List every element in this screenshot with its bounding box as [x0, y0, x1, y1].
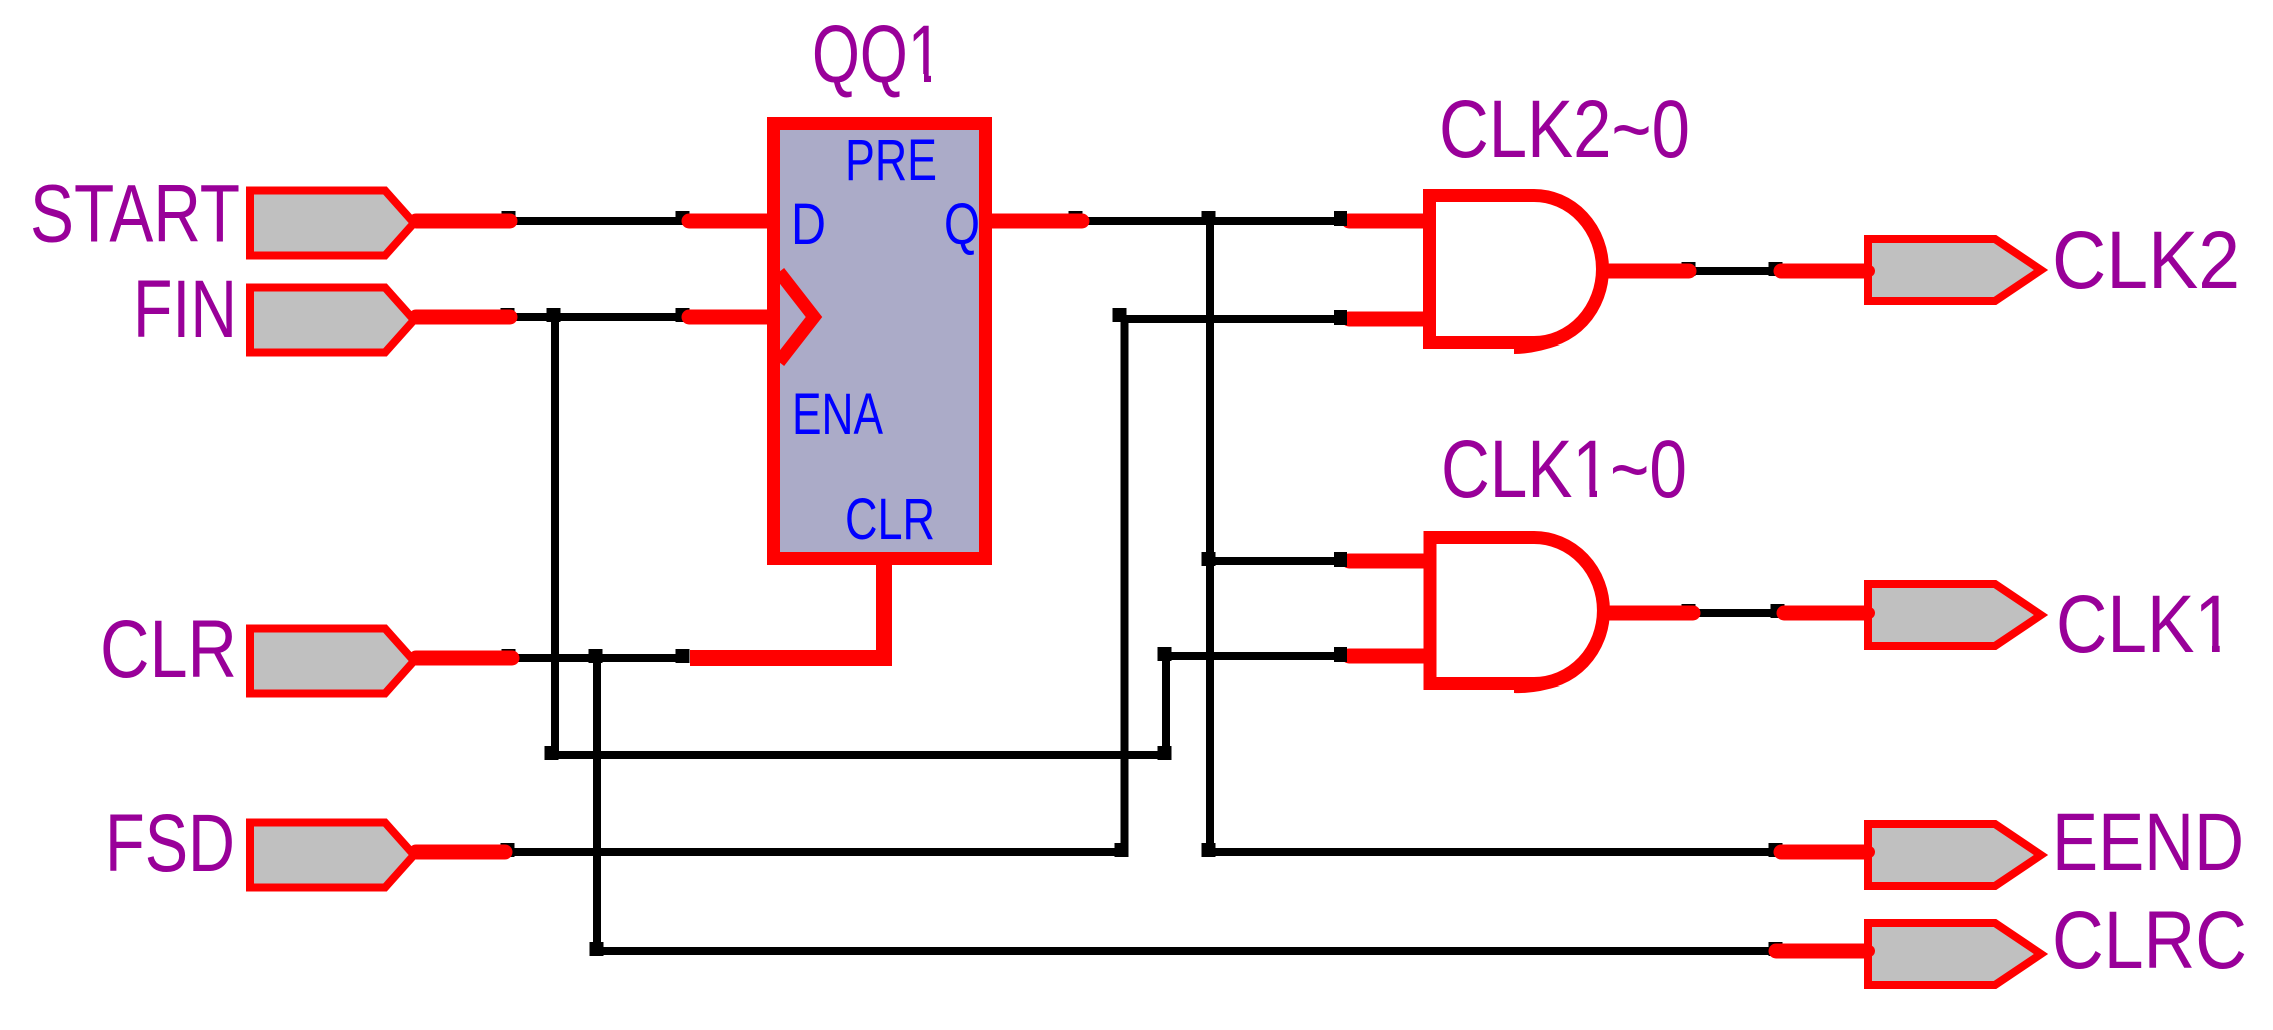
node AND2 input B corner	[1158, 647, 1172, 661]
wire EEND horizontal	[1210, 848, 1778, 856]
svg-text:START: START	[30, 169, 240, 260]
mask digit-1 foot serif (CLK1~0)	[1576, 490, 1590, 499]
svg-text:CLK1~0: CLK1~0	[1441, 424, 1687, 515]
svg-text:CLK2: CLK2	[2052, 215, 2240, 306]
wire stub Q output	[990, 214, 1082, 229]
wire stub FSD pin	[416, 845, 505, 860]
wire FSD branch to AND1 lower input	[1121, 315, 1344, 323]
wire stub AND2 input A	[1349, 554, 1430, 569]
node CLR branch T junction	[589, 649, 603, 663]
wire FSD vertical x=1124	[1121, 317, 1129, 854]
svg-text:FIN: FIN	[133, 264, 237, 355]
node START wire left end	[502, 211, 516, 225]
wire stub START pin	[416, 214, 510, 229]
wire stub CLR pin	[416, 651, 512, 666]
node AND2 output wire right end	[1771, 604, 1785, 618]
output pin EEND	[1863, 824, 2041, 886]
flip-flop QQ1 body	[774, 124, 986, 559]
mask digit-1 foot serif (QQ1)	[911, 74, 2233, 653]
wire stub EEND pin	[1781, 845, 1866, 860]
wire FIN to clock	[509, 313, 686, 321]
wire vertical C branch to AND2 upper input	[1210, 557, 1344, 565]
wire FSD horizontal	[507, 848, 1126, 856]
wire stub AND1 input A	[1349, 214, 1430, 229]
node FSD wire left end	[501, 843, 515, 857]
wire AND1 output to CLK2	[1689, 267, 1778, 275]
output pin CLK1	[1863, 584, 2041, 646]
wire FIN branch bottom horizontal	[553, 751, 1167, 759]
svg-text:FSD: FSD	[105, 798, 235, 889]
node CLR wire right end	[676, 649, 690, 663]
wire CLR horizontal	[512, 654, 686, 662]
svg-text:D: D	[791, 192, 826, 257]
node Q branch T junction	[1202, 211, 1216, 225]
junction squares	[501, 211, 1785, 956]
node FSD branch corner	[1113, 308, 1127, 322]
svg-text:CLR: CLR	[100, 604, 237, 695]
svg-text:EEND: EEND	[2052, 797, 2244, 888]
wire stub AND1 input B	[1349, 312, 1430, 327]
wire CLRC horizontal	[598, 947, 1778, 955]
output pin CLRC	[1863, 923, 2041, 985]
node FIN branch T junction	[547, 308, 561, 322]
wire START to D	[507, 219, 1780, 953]
svg-text:CLR: CLR	[845, 487, 935, 552]
wire stub AND2 input B	[1349, 649, 1430, 664]
node AND1 input B wire end	[1334, 310, 1347, 325]
wire Q branch vertical x=1210	[1206, 219, 1214, 854]
input pin FIN	[250, 288, 414, 353]
node AND2 input A T junction	[1202, 552, 1216, 566]
svg-text:QQ1: QQ1	[812, 9, 942, 100]
node FIN wire right end	[676, 308, 690, 322]
svg-text:CLK1: CLK1	[2056, 579, 2234, 670]
node AND1 output wire right end	[1769, 262, 1783, 276]
svg-text:Q: Q	[944, 192, 980, 257]
red net stubs	[416, 221, 1866, 951]
output pin CLK2	[1863, 239, 2041, 301]
node CLR wire left end	[502, 649, 516, 663]
node EEND wire right end	[1769, 843, 1783, 857]
node FIN branch bottom left corner	[545, 746, 559, 760]
wire FIN branch to AND2 lower input	[1164, 652, 1344, 660]
node AND1 input A wire end	[1334, 211, 1347, 226]
input pin CLR	[250, 629, 414, 694]
wire CLR red L into flip-flop CLR	[690, 558, 884, 658]
svg-text:PRE: PRE	[845, 128, 937, 193]
wire stub CLK2 pin	[1781, 264, 1866, 279]
node CLRC corner	[590, 942, 604, 956]
AND gate CLK1~0	[1430, 538, 1603, 694]
node CLRC wire right end	[1769, 942, 1783, 956]
node AND2 input A wire end	[1334, 552, 1347, 567]
wire stub CLK1 pin	[1784, 606, 1866, 621]
flip-flop clock chevron	[779, 272, 814, 362]
node Q wire left end	[1069, 211, 1083, 225]
wire stub CLRC pin	[1776, 944, 1866, 959]
svg-text:ENA: ENA	[792, 382, 883, 447]
mask digit-1 foot serif (CLK1)	[2199, 644, 2213, 654]
AND gate CLK2~0	[1430, 196, 1603, 355]
wire CLR branch vertical x=597	[593, 656, 601, 953]
wire Q net horizontal	[1080, 217, 1344, 225]
input pin START	[250, 191, 414, 256]
node EEND corner	[1202, 843, 1216, 857]
svg-text:CLK2~0: CLK2~0	[1439, 84, 1690, 175]
wire stub FIN pin	[416, 310, 510, 325]
wire FIN branch vertical x=555	[551, 315, 559, 757]
node AND2 input B wire end	[1334, 647, 1347, 662]
svg-text:CLRC: CLRC	[2052, 895, 2247, 986]
wire stub clock input	[689, 310, 772, 325]
node START wire right end	[676, 211, 690, 225]
wire stub AND1 output	[1598, 264, 1689, 279]
node FIN branch bottom right corner	[1158, 746, 1172, 760]
node FSD corner	[1115, 843, 1129, 857]
wire stub AND2 output	[1598, 606, 1693, 621]
node AND2 output wire left end	[1682, 604, 1696, 618]
wire FIN branch vertical x=1166	[1162, 654, 1170, 757]
node AND1 output wire left end	[1682, 262, 1696, 276]
input pin FSD	[250, 823, 414, 888]
wire stub D input	[689, 214, 775, 229]
node FIN wire left end	[501, 308, 515, 322]
wire AND2 output to CLK1	[1689, 609, 1780, 617]
